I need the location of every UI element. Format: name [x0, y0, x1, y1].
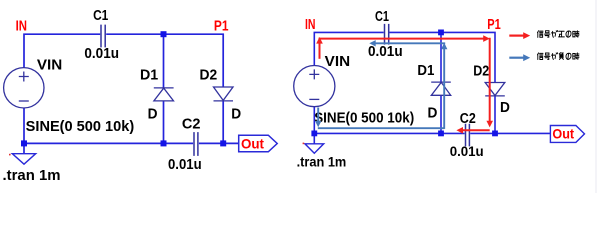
svg-text:.tran 1m: .tran 1m — [3, 168, 61, 184]
svg-text:C1: C1 — [93, 8, 108, 24]
svg-text:IN: IN — [16, 18, 27, 35]
svg-text:0.01u: 0.01u — [168, 157, 202, 173]
svg-text:.tran 1m: .tran 1m — [297, 153, 347, 169]
svg-text:SINE(0 500 10k): SINE(0 500 10k) — [26, 119, 135, 135]
svg-text:C2: C2 — [460, 111, 476, 127]
svg-text:D1: D1 — [417, 63, 434, 79]
svg-text:VIN: VIN — [325, 54, 350, 70]
svg-text:D: D — [148, 107, 158, 123]
svg-text:VIN: VIN — [37, 57, 62, 73]
svg-text:SINE(0 500 10k): SINE(0 500 10k) — [314, 111, 414, 127]
svg-text:D2: D2 — [200, 67, 218, 83]
svg-text:Out: Out — [552, 125, 574, 141]
svg-text:Out: Out — [241, 135, 264, 151]
svg-text:D1: D1 — [140, 67, 158, 83]
svg-text:D2: D2 — [473, 64, 489, 80]
svg-text:P1: P1 — [487, 16, 501, 33]
svg-text:C1: C1 — [375, 9, 389, 25]
svg-text:D: D — [231, 107, 241, 123]
svg-text:P1: P1 — [214, 18, 229, 35]
svg-text:D: D — [428, 105, 438, 121]
svg-text:IN: IN — [305, 16, 316, 33]
svg-text:0.01u: 0.01u — [84, 46, 119, 62]
svg-text:0.01u: 0.01u — [368, 44, 403, 60]
svg-text:C2: C2 — [182, 117, 201, 133]
svg-text:0.01u: 0.01u — [450, 144, 484, 159]
svg-text:D: D — [500, 100, 510, 116]
